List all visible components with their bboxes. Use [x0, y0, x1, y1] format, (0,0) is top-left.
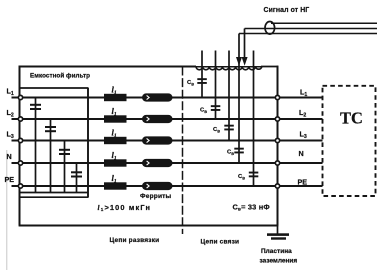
coupling wire 5 [253, 67, 255, 187]
top edge line through scallops [196, 66, 261, 68]
ferrite bead row2 [142, 115, 173, 123]
ferrite bead row5 [142, 182, 173, 190]
right edge junction L2 [275, 117, 279, 121]
svg-text:l1>100 мкГн: l1>100 мкГн [98, 203, 152, 212]
inductor L1 row2 [104, 115, 127, 122]
filter capacitor C4 [71, 171, 82, 177]
coupling capacitor Cv5 [249, 172, 258, 178]
coupling stub above bus 2 [215, 51, 217, 67]
right edge junction PE [275, 184, 279, 188]
svg-text:PE: PE [5, 175, 15, 184]
TC box [323, 86, 376, 196]
svg-text:Cв: Cв [238, 174, 245, 180]
ferrite bead row1 [142, 93, 173, 101]
svg-text:Пластина: Пластина [261, 248, 292, 255]
ground [267, 233, 289, 239]
ground stem [277, 226, 279, 234]
svg-text:PE: PE [298, 177, 308, 186]
wire L2 [12, 118, 323, 120]
inductor L1 row1 [104, 94, 127, 101]
coupling wire 1 [201, 67, 203, 98]
coax line bottom [239, 33, 377, 35]
inductor L1 row5 [104, 182, 127, 189]
coupling wire 2 [215, 67, 217, 120]
right edge junction L3 [275, 138, 279, 142]
svg-text:N: N [299, 149, 304, 158]
svg-text:заземления: заземления [260, 258, 298, 265]
coupling capacitor Cv4 [234, 148, 244, 154]
filter cap wire 2 [50, 119, 52, 193]
inductor L1 row3 [104, 137, 127, 144]
svg-text:Цепи связи: Цепи связи [201, 239, 240, 246]
right edge junction L1 [275, 95, 279, 99]
capacitive filter cap bus line [19, 192, 88, 194]
terminal PE [18, 184, 22, 188]
right edge junction N [275, 161, 279, 165]
coax line middle [245, 28, 378, 30]
coax drop wire A [244, 29, 246, 62]
filter capacitor C3 [59, 149, 70, 155]
capacitive filter box underline of label [19, 87, 89, 89]
capacitive filter box right edge [87, 88, 89, 197]
decoupling box top edge (right part) [261, 66, 278, 68]
wire L3 [12, 140, 323, 142]
svg-text:Cв: Cв [200, 108, 207, 114]
svg-text:Сигнал от НГ: Сигнал от НГ [264, 7, 310, 14]
coupling stub above bus 3 [228, 51, 230, 67]
coax ellipse [265, 22, 275, 35]
coupling stub above bus 1 [201, 51, 203, 67]
filter capacitor C2 [45, 126, 56, 132]
coupling capacitor Cv3 [224, 125, 234, 131]
arrowhead B [236, 57, 242, 66]
ferrite bead row4 [142, 159, 173, 167]
coupling capacitor Cv1 [197, 78, 207, 84]
filter cap wire 4 [76, 163, 78, 193]
decoupling box top edge (left part) [19, 65, 197, 67]
inductor L1 row4 [104, 159, 127, 166]
filter cap wire 3 [64, 141, 66, 193]
svg-text:ТС: ТС [340, 109, 363, 128]
svg-text:N: N [7, 152, 12, 161]
coupling stub above bus 5 [253, 51, 255, 67]
decoupling box left edge [19, 66, 21, 226]
filter cap wire 1 [35, 98, 37, 193]
arrowhead A [242, 57, 248, 66]
ferrite bead row3 [142, 136, 173, 144]
svg-text:Емкостной фильтр: Емкостной фильтр [30, 72, 90, 80]
svg-text:Cв: Cв [187, 80, 194, 86]
divider dashed line [182, 67, 184, 235]
wire PE [12, 185, 323, 187]
coupling wire 4 from coax [238, 34, 240, 164]
terminal L2 [18, 117, 22, 121]
coax line top [271, 22, 377, 24]
coupling capacitor Cv2 [211, 105, 221, 111]
terminal L3 [18, 138, 22, 142]
coupling wire 3 [228, 67, 230, 141]
decoupling box right edge [277, 66, 279, 226]
decoupling box bottom edge [19, 225, 279, 227]
filter capacitor C1 [30, 99, 41, 110]
wire N [12, 162, 323, 164]
svg-text:Ферриты: Ферриты [140, 193, 172, 200]
wire L1 [12, 97, 323, 99]
top edge scallop hops [196, 67, 262, 70]
terminal N [18, 161, 22, 165]
capacitive filter box bottom edge [19, 196, 89, 198]
page edge scan streak [6, 150, 7, 270]
svg-text:Cв: Cв [227, 150, 234, 156]
terminal L1 [18, 95, 22, 99]
svg-text:Цепи развязки: Цепи развязки [110, 237, 160, 244]
svg-text:Cв: Cв [213, 127, 220, 133]
